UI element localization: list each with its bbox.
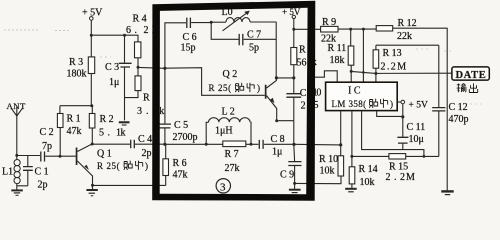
node rail-R3 bbox=[90, 34, 93, 37]
label output (Chinese) bbox=[457, 83, 478, 92]
wire IC pin to R10 bbox=[340, 111, 342, 145]
node Q1 collector bbox=[91, 143, 94, 146]
wire +5V rail to R4 bbox=[91, 35, 138, 42]
wire bias tap to Q2 base bbox=[165, 68, 265, 96]
svg-text:15p: 15p bbox=[181, 43, 196, 54]
node IC feed top bbox=[362, 28, 365, 31]
wire C12 column (R13 top feed) bbox=[438, 45, 440, 156]
svg-text:): ) bbox=[145, 161, 148, 171]
node bias tap bbox=[163, 67, 166, 70]
wire +5V down to rail bbox=[90, 20, 92, 35]
resistor R10 bbox=[319, 145, 344, 177]
svg-text:10k: 10k bbox=[320, 166, 335, 177]
svg-text:56: 56 bbox=[297, 58, 307, 69]
capacitor C6 bbox=[181, 18, 212, 54]
capacitor C11 bbox=[397, 104, 425, 150]
wire R13 top to C12 column bbox=[376, 44, 439, 46]
capacitor C3 bbox=[105, 35, 132, 120]
svg-text:C 9: C 9 bbox=[280, 170, 294, 181]
svg-text:M: M bbox=[406, 172, 415, 183]
resistor R9 bbox=[321, 17, 377, 45]
svg-text:C 3: C 3 bbox=[105, 62, 119, 73]
wire emitter to C10 column bbox=[277, 120, 294, 122]
svg-text:C 8: C 8 bbox=[271, 134, 285, 145]
DATE output box bbox=[452, 67, 489, 81]
node output C8/C9 bbox=[292, 143, 295, 146]
wire C9 node to R10 bottom (under frame) bbox=[295, 176, 341, 184]
node R4-R5 bbox=[137, 66, 140, 69]
svg-text:R 1: R 1 bbox=[67, 114, 81, 125]
wire rail junction down to IC bbox=[362, 29, 364, 82]
resistor R8 bbox=[291, 29, 317, 78]
node Q2 emitter joint bbox=[275, 119, 278, 122]
inductor L0 (variable) bbox=[211, 7, 276, 31]
svg-text:6: 6 bbox=[126, 25, 131, 36]
wire R13 node into IC bbox=[375, 74, 377, 83]
svg-text:R 4: R 4 bbox=[133, 14, 147, 25]
capacitor C9 bbox=[280, 144, 302, 183]
capacitor C10 bbox=[286, 78, 321, 121]
svg-text:C 6: C 6 bbox=[183, 32, 197, 43]
svg-text:R 12: R 12 bbox=[398, 18, 417, 29]
wire collector to C4 bbox=[92, 143, 130, 145]
node feed crossing bbox=[362, 71, 365, 74]
svg-text:1μH: 1μH bbox=[215, 126, 233, 137]
wire +5V to R9 (under frame) bbox=[294, 28, 321, 30]
svg-text:R 11: R 11 bbox=[328, 43, 347, 54]
node Q1 emitter/ground bbox=[91, 184, 94, 187]
wire collector step to IC pin (from frame) bbox=[311, 71, 337, 82]
resistor R4 bbox=[126, 14, 157, 68]
scan noise marks top-left bbox=[4, 30, 482, 104]
svg-text:R 25(: R 25( bbox=[209, 83, 232, 93]
svg-text:47k: 47k bbox=[173, 169, 188, 180]
wire feedback / DATE output line bbox=[351, 71, 452, 73]
wire R12 right down to ground bbox=[446, 28, 448, 191]
svg-text:2: 2 bbox=[144, 25, 149, 36]
label Q1 R25(chip) bbox=[97, 161, 148, 171]
svg-text:470p: 470p bbox=[449, 114, 469, 125]
svg-text:L1: L1 bbox=[2, 167, 13, 178]
svg-text:47k: 47k bbox=[67, 126, 82, 137]
svg-text:27k: 27k bbox=[225, 163, 240, 174]
antenna symbol bbox=[12, 107, 23, 155]
svg-text:): ) bbox=[390, 99, 393, 109]
resistor R12 bbox=[376, 18, 447, 42]
svg-text:R 2: R 2 bbox=[100, 114, 114, 125]
resistor R15 bbox=[352, 154, 439, 183]
svg-text:): ) bbox=[257, 83, 260, 93]
svg-text:.: . bbox=[394, 172, 397, 183]
IC +5V pin terminal bbox=[397, 100, 428, 110]
transistor Q1 bbox=[76, 144, 112, 185]
svg-text:R 13: R 13 bbox=[383, 48, 402, 59]
node box input C4/C5/R6 bbox=[163, 143, 166, 146]
svg-text:2.2M: 2.2M bbox=[381, 62, 408, 73]
svg-text:DATE: DATE bbox=[456, 70, 487, 81]
svg-text:18k: 18k bbox=[330, 55, 345, 66]
resistor R11 bbox=[328, 29, 354, 71]
svg-text:2: 2 bbox=[386, 172, 391, 183]
svg-text:C 7: C 7 bbox=[247, 30, 261, 41]
svg-text:2: 2 bbox=[400, 172, 405, 183]
node R1 base wire bbox=[59, 155, 62, 158]
wire bias R4R5 junction into box bbox=[138, 66, 165, 69]
+5V terminal (box) bbox=[282, 7, 301, 29]
resistor R1 bbox=[57, 106, 81, 157]
node L2/R7 right bbox=[250, 143, 253, 146]
transistor Q2 bbox=[223, 69, 277, 121]
resistor R3 bbox=[67, 35, 95, 106]
svg-text:2: 2 bbox=[301, 101, 306, 112]
svg-text:2700p: 2700p bbox=[173, 132, 198, 143]
node +5V column bbox=[401, 115, 404, 118]
node C9 ground bbox=[293, 182, 296, 185]
svg-text:C 11: C 11 bbox=[407, 122, 426, 133]
svg-text:C 1: C 1 bbox=[35, 167, 49, 178]
wire output through frame to R10/IC bbox=[294, 143, 341, 146]
ground (L1/C1) bbox=[11, 186, 22, 196]
resistor R14 bbox=[349, 156, 377, 187]
svg-text:10μ: 10μ bbox=[409, 134, 424, 145]
svg-text:2p: 2p bbox=[142, 148, 152, 159]
wire box left vertical C6 feed bbox=[165, 23, 186, 124]
svg-text:.: . bbox=[146, 106, 149, 117]
resistor R6 bbox=[163, 144, 188, 185]
+5V terminal (left) bbox=[82, 8, 103, 21]
ground (R14) bbox=[345, 184, 357, 192]
svg-text:.: . bbox=[135, 25, 138, 36]
node R8 bottom bbox=[292, 76, 295, 79]
svg-text:1μ: 1μ bbox=[109, 77, 119, 88]
ground (C3) bbox=[119, 122, 130, 125]
svg-text:10k: 10k bbox=[360, 177, 375, 188]
wire R11 node into IC bbox=[350, 71, 352, 82]
svg-text:+ 5V: + 5V bbox=[282, 7, 301, 17]
frame of section 3 (thick) bbox=[152, 1, 315, 201]
svg-text:R 6: R 6 bbox=[173, 158, 187, 169]
svg-text:R 10: R 10 bbox=[319, 154, 338, 165]
main wire input to L2/R7 bbox=[165, 143, 206, 145]
svg-text:7p: 7p bbox=[42, 141, 52, 152]
svg-text:180k: 180k bbox=[67, 68, 87, 79]
op-amp IC LM358 box bbox=[326, 82, 398, 110]
capacitor C7 bbox=[211, 22, 276, 53]
svg-text:C 12: C 12 bbox=[449, 102, 468, 113]
wire IC pin to upper net bbox=[362, 111, 424, 157]
wire IC pin to R14/R15 net bbox=[351, 111, 353, 157]
svg-text:R 25(: R 25( bbox=[97, 161, 120, 171]
ground (C9) bbox=[289, 183, 301, 192]
svg-text:C: C bbox=[300, 88, 307, 99]
wire collector to R8 column bbox=[276, 77, 293, 79]
capacitor C2 bbox=[40, 127, 76, 162]
svg-text:+ 5V: + 5V bbox=[409, 101, 428, 111]
node R14 top bbox=[350, 155, 353, 158]
node R13 bottom / output bbox=[374, 72, 377, 75]
capacitor C1 bbox=[17, 156, 49, 191]
svg-text:5p: 5p bbox=[249, 43, 259, 54]
resistor R13 bbox=[373, 45, 407, 73]
inductor L2 bbox=[206, 107, 251, 145]
node antenna-L1-C1 bbox=[15, 154, 18, 157]
node L2/R7 left bbox=[205, 143, 208, 146]
svg-text:R 14: R 14 bbox=[359, 164, 378, 175]
svg-text:Q 1: Q 1 bbox=[97, 149, 112, 160]
capacitor C8 bbox=[259, 134, 294, 158]
svg-text:0: 0 bbox=[316, 88, 321, 99]
node R10 top bbox=[339, 143, 342, 146]
capacitor C12 bbox=[432, 102, 468, 125]
circled 3 section marker bbox=[216, 179, 230, 194]
svg-text:R 3: R 3 bbox=[69, 57, 83, 68]
node rail-C3 bbox=[123, 34, 126, 37]
svg-text:k: k bbox=[121, 128, 126, 139]
capacitor C4 bbox=[131, 134, 165, 159]
wire IC pin4 to +5V column bbox=[377, 111, 403, 117]
svg-text:3: 3 bbox=[220, 181, 226, 193]
label Q2 R25(chip) bbox=[209, 83, 261, 93]
inductor L1 bbox=[2, 155, 20, 185]
node +5V rail right bbox=[292, 28, 295, 31]
svg-text:LM 358(: LM 358( bbox=[332, 99, 367, 109]
resistor R7 bbox=[206, 141, 258, 174]
svg-text:C 2: C 2 bbox=[40, 127, 54, 138]
wire R3 bottom to R1/R2 rail bbox=[60, 105, 92, 107]
svg-text:k: k bbox=[159, 106, 164, 117]
ground (Q1) bbox=[86, 185, 97, 196]
svg-text:1μ: 1μ bbox=[272, 147, 282, 158]
wire Q1 emitter to R6 (under frame) bbox=[93, 184, 166, 186]
svg-text:C 4: C 4 bbox=[138, 134, 152, 145]
svg-text:Q 2: Q 2 bbox=[223, 69, 238, 80]
node W jog bbox=[423, 155, 426, 158]
svg-text:22k: 22k bbox=[397, 31, 412, 42]
svg-text:5: 5 bbox=[99, 128, 104, 139]
svg-text:L 2: L 2 bbox=[222, 107, 235, 118]
svg-text:I C: I C bbox=[348, 86, 361, 97]
svg-text:.: . bbox=[108, 128, 111, 139]
wire tank to Q2 collector bbox=[275, 22, 277, 78]
svg-text:2p: 2p bbox=[38, 180, 48, 191]
node R11 top bbox=[349, 28, 352, 31]
resistor R2 bbox=[89, 106, 125, 144]
node C6-L0-C7 bbox=[210, 21, 213, 24]
svg-text:R 7: R 7 bbox=[225, 149, 239, 160]
svg-text:R 9: R 9 bbox=[322, 17, 336, 28]
node R11 bottom / feedback bbox=[350, 70, 353, 73]
node R3-R2 bbox=[90, 104, 93, 107]
wire emitter column down to output node bbox=[293, 121, 295, 145]
node collector bbox=[275, 76, 278, 79]
svg-text:C 5: C 5 bbox=[174, 120, 188, 131]
wire ant node to C2 bbox=[17, 155, 40, 157]
capacitor C5 bbox=[158, 120, 198, 144]
svg-text:3: 3 bbox=[137, 106, 142, 117]
resistor R5 bbox=[125, 67, 165, 117]
ground (right column) bbox=[441, 191, 453, 194]
